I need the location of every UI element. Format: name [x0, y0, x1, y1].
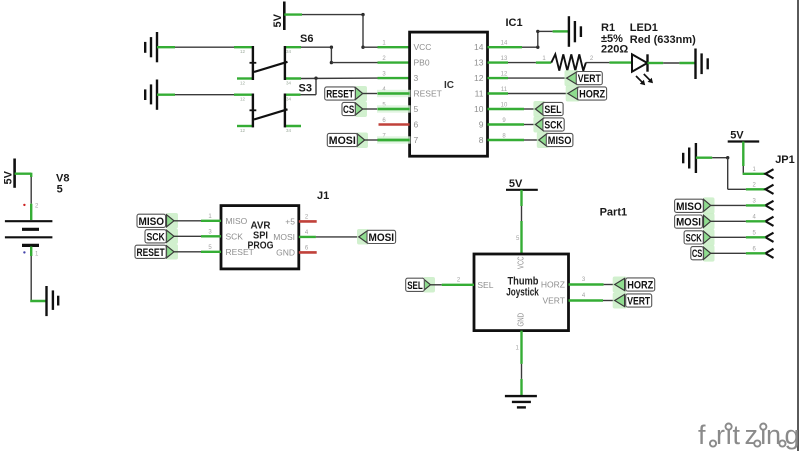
svg-text:5: 5: [57, 184, 63, 196]
svg-text:9: 9: [479, 120, 484, 130]
svg-text:S6: S6: [300, 33, 313, 45]
ground (battery): [47, 286, 59, 316]
svg-text:RESET: RESET: [414, 89, 442, 99]
wire S6 lower / S3 upper to IC pin 3: [301, 77, 410, 95]
svg-text:12: 12: [240, 49, 246, 54]
connector J1 AVR SPI PROG: [208, 190, 329, 269]
svg-text:MISO: MISO: [548, 135, 572, 147]
flag MOSI to JP1 pin 4: [675, 213, 766, 230]
svg-text:10: 10: [501, 103, 508, 109]
svg-text:220Ω: 220Ω: [601, 44, 628, 56]
svg-text:HORZ: HORZ: [627, 280, 653, 292]
svg-text:12: 12: [240, 97, 246, 102]
svg-text:VCC: VCC: [516, 257, 526, 270]
flag MISO to J1: [137, 213, 221, 229]
svg-text:12: 12: [240, 81, 246, 86]
svg-text:MOSI: MOSI: [369, 232, 395, 244]
window right edge: [797, 0, 799, 451]
svg-text:Part1: Part1: [600, 207, 628, 219]
ground (right of LED1): [696, 49, 708, 80]
flag RESET to IC pin 4: [325, 86, 410, 102]
svg-text:12: 12: [240, 128, 246, 133]
IC right pin stubs: [488, 47, 525, 140]
flag HORZ right of joystick: [613, 277, 655, 293]
switch S6: [234, 33, 313, 86]
svg-text:11: 11: [475, 89, 484, 99]
svg-text:LED1: LED1: [630, 22, 658, 34]
flag MISO to JP1 pin 3: [675, 197, 766, 214]
flag CS to JP1 pin 6: [691, 245, 766, 262]
flag HORZ from IC pin 11: [508, 86, 607, 102]
svg-text:13: 13: [474, 58, 484, 68]
svg-text:PB0: PB0: [414, 58, 430, 68]
svg-text:HORZ: HORZ: [579, 89, 605, 101]
svg-text:GND: GND: [516, 313, 526, 327]
halo on IC pin 5 stub: [377, 105, 411, 112]
resistor R1: [508, 22, 632, 71]
svg-text:11: 11: [501, 87, 508, 93]
svg-text:3: 3: [414, 73, 419, 83]
ground (top middle, IC pin 14): [569, 16, 581, 47]
flag SCK to JP1 pin 5: [684, 229, 765, 246]
flag MISO from IC pin 8: [524, 132, 573, 148]
svg-text:JP1: JP1: [775, 154, 795, 166]
svg-text:12: 12: [501, 72, 508, 78]
flag CS to IC pin 5: [342, 102, 410, 118]
svg-text:VERT: VERT: [627, 296, 650, 308]
svg-text:S3: S3: [299, 83, 312, 95]
svg-text:8: 8: [479, 135, 484, 145]
svg-text:Joystick: Joystick: [506, 287, 539, 299]
svg-text:Thumb: Thumb: [508, 276, 539, 288]
wire joystick GND to ground: [516, 331, 522, 396]
wire J1 MOSI to flag MOSI: [299, 236, 359, 238]
svg-text:14: 14: [501, 41, 508, 47]
LED1: [630, 22, 696, 85]
fritzing logo: [698, 413, 800, 450]
ground (JP1, left-pointing): [683, 143, 696, 173]
svg-text:13: 13: [501, 56, 508, 62]
svg-text:SCK: SCK: [544, 120, 562, 132]
wire IC pin 14 to ground: [522, 30, 568, 49]
red stub J1 +5: [299, 220, 317, 223]
wire S6 to IC pin 2 PB0: [301, 46, 410, 65]
wire 5V to JP1 pin 1: [743, 142, 766, 174]
flag MOSI right of J1: [357, 229, 396, 245]
svg-text:SCK: SCK: [686, 232, 702, 244]
svg-text:VERT: VERT: [578, 73, 601, 85]
svg-text:SEL: SEL: [407, 280, 423, 292]
ground (joystick, downward): [505, 396, 537, 407]
svg-text:GND: GND: [276, 248, 295, 258]
svg-text:HORZ: HORZ: [541, 280, 565, 290]
svg-text:MOSI: MOSI: [273, 232, 295, 242]
ground (left, to S3): [145, 80, 157, 110]
flag SEL to joystick: [406, 277, 474, 293]
flag VERT from IC pin 12: [508, 70, 602, 86]
svg-text:SEL: SEL: [544, 104, 561, 116]
svg-text:MISO: MISO: [226, 216, 248, 226]
svg-text:MOSI: MOSI: [676, 217, 701, 229]
halo on IC pin 4 stub: [377, 90, 411, 97]
svg-text:14: 14: [474, 42, 484, 52]
svg-text:5V: 5V: [3, 170, 15, 184]
ground (top-left, to S6): [145, 32, 157, 62]
svg-text:34: 34: [286, 128, 292, 133]
svg-text:5V: 5V: [272, 13, 284, 27]
svg-text:MISO: MISO: [676, 201, 702, 213]
5V supply symbol (joystick): [506, 178, 538, 190]
svg-text:SCK: SCK: [146, 231, 164, 243]
flag VERT right of joystick: [613, 293, 652, 309]
svg-text:VCC: VCC: [414, 42, 432, 52]
svg-text:+5: +5: [285, 217, 295, 227]
svg-text:VERT: VERT: [542, 296, 565, 306]
svg-text:Red (633nm): Red (633nm): [630, 34, 696, 46]
wire joystick HORZ to flag: [569, 277, 615, 284]
svg-text:7: 7: [414, 135, 419, 145]
svg-text:12: 12: [474, 73, 484, 83]
svg-text:PROG: PROG: [248, 241, 274, 252]
switch S3: [234, 83, 312, 134]
5V supply symbol (top, to IC VCC): [272, 2, 284, 31]
svg-text:J1: J1: [317, 190, 329, 202]
svg-text:6: 6: [414, 120, 419, 130]
svg-text:IC: IC: [444, 80, 454, 91]
svg-text:SCK: SCK: [226, 232, 244, 242]
battery V8: [5, 173, 70, 258]
flag SCK from IC pin 9: [524, 117, 564, 133]
svg-text:RESET: RESET: [137, 247, 165, 259]
flag SEL from IC pin 10: [524, 101, 563, 117]
red stub J1 GND: [299, 251, 317, 254]
svg-text:MOSI: MOSI: [329, 135, 356, 147]
svg-text:MISO: MISO: [139, 216, 165, 228]
svg-text:CS: CS: [343, 104, 354, 116]
svg-text:34: 34: [286, 81, 292, 86]
svg-text:SEL: SEL: [477, 280, 493, 290]
wire ground to S3 pin: [157, 93, 234, 95]
svg-text:34: 34: [286, 49, 292, 54]
joystick Part1 box: [474, 254, 569, 331]
5V supply symbol (battery): [3, 159, 15, 188]
svg-text:34: 34: [286, 97, 292, 102]
wire 5V to joystick VCC: [516, 190, 522, 254]
svg-text:10: 10: [474, 104, 484, 114]
5V supply symbol (JP1): [728, 130, 760, 142]
connector JP1: [753, 154, 795, 258]
svg-text:RESET: RESET: [326, 89, 354, 101]
svg-text:IC1: IC1: [506, 17, 523, 29]
wire ground to JP1 pin 2: [696, 156, 766, 189]
wire battery - to ground: [30, 247, 46, 302]
wire joystick VERT to flag: [569, 293, 615, 300]
svg-text:5V: 5V: [730, 130, 744, 142]
svg-text:5: 5: [414, 104, 419, 114]
wire 5V to IC pin 1 VCC: [284, 13, 409, 49]
wire 5V to battery +: [15, 173, 32, 220]
flag SCK to J1: [145, 229, 221, 245]
halo on IC pin 7 stub: [377, 136, 411, 143]
flag MOSI to IC pin 7: [327, 133, 409, 149]
IC1 chip: [382, 17, 522, 156]
wire ground to S6 pin: [157, 46, 234, 48]
svg-text:5V: 5V: [509, 178, 523, 190]
svg-text:CS: CS: [692, 248, 703, 260]
flag RESET to J1: [135, 244, 221, 260]
red stub wire at IC pin 6: [379, 123, 410, 126]
